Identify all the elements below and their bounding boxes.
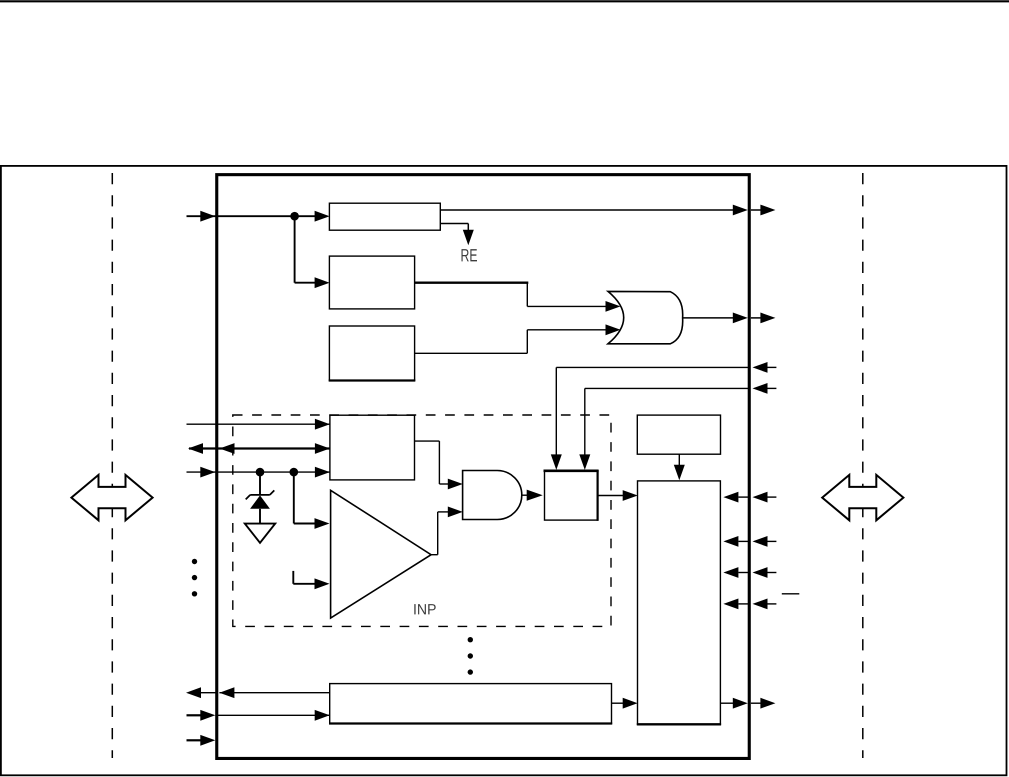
wire right input pin 4 to B6 [723,599,776,610]
wire left pin stub (bottom) [187,735,216,746]
ground symbol [245,524,275,543]
left bus double arrow [71,475,152,520]
block B4 (input stage) [330,415,415,480]
wire into B4 line 1 [187,419,330,430]
block B2 [329,256,414,309]
label INP [414,604,435,614]
wire left pin into B7 [187,710,330,721]
wire J1 to B2 [295,215,330,288]
wire B7 to register B6 [612,698,638,709]
wire feedback B (right pin to latch) [579,383,776,470]
ellipsis dots left [192,559,197,597]
wire OR output to right pin [683,313,776,324]
wire IN1 (top input) [187,211,330,222]
node J1 (junction dot) [290,212,299,221]
register block B6 [637,481,721,724]
wire D1 to ground [259,509,261,524]
wire right input pin 1 to B6 [723,492,776,503]
OR gate U1 [608,291,683,343]
wire stub to comparator input 2 [293,571,329,589]
node J3 (junction dot) [290,468,299,477]
block B1 [329,203,440,230]
right bus double arrow [822,475,903,520]
block B7 (bottom interface) [329,684,612,724]
wire B4 output to AND input 1 [415,441,463,489]
zener diode D1 [246,490,275,508]
wire B6 output to right pin [720,698,775,709]
overline mark of pin label [782,593,800,595]
wire B5 down to register B6 [674,454,685,480]
wire into B4 line 3 [187,467,330,478]
block B5 [637,415,720,454]
header rule (top of page) [0,0,1009,2]
dashed channel box INP [233,415,611,626]
node J2 (junction dot) [256,468,265,477]
wire RE tap with down arrow [440,224,474,246]
wire J2 to zener D1 [259,472,261,495]
block B3 [329,326,416,381]
wire right input pin 2 to B6 [723,536,776,547]
wire B1 output to right pin [440,205,775,216]
wire J3 to comparator input 1 [294,472,330,529]
wire into B4 bidirectional [188,443,330,454]
wire comparator output to AND input 2 [431,507,463,555]
IC boundary box [217,175,750,759]
page frame [1,166,1007,775]
comparator A1 [331,490,432,618]
wire B2 to OR input 1 [415,283,621,312]
ellipsis dots middle [468,637,473,675]
left bus dashed rail [111,173,113,758]
right bus dashed rail [862,173,864,758]
wire right input pin 3 to B6 [723,567,776,578]
wire AND output to latch [522,490,543,501]
wire feedback A (right pin to latch) [551,362,777,470]
AND gate U2 [463,471,522,520]
wire B3 to OR input 2 [415,324,621,353]
label RE [461,249,477,261]
latch block L1 [544,470,599,521]
wire B7 output to left pin [186,687,330,698]
wire latch to register B6 [598,490,638,501]
